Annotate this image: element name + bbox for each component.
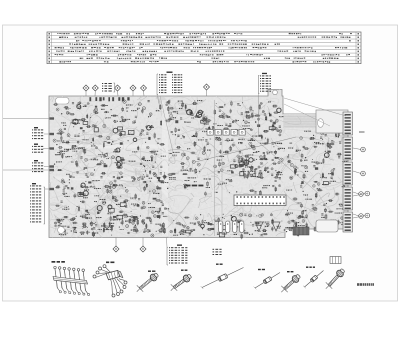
legend list (top small) bbox=[102, 83, 115, 92]
wire list C3x (left, long) bbox=[30, 183, 54, 224]
connector J1 (right edge) bbox=[343, 112, 353, 135]
diode pictorial D-c bbox=[303, 267, 323, 289]
alignment mark diamond D6 bbox=[204, 84, 210, 96]
component cluster top-middle bbox=[165, 100, 284, 144]
wire list TAB2 (left) bbox=[32, 144, 54, 153]
mounting hole right bbox=[318, 119, 324, 128]
routing lane vertical bbox=[162, 100, 168, 236]
pin header pictorial (comb) bbox=[52, 261, 90, 296]
leader line L-a bbox=[195, 137, 296, 162]
alignment mark diamond D5 bbox=[141, 85, 147, 96]
left edge wire stubs bbox=[50, 117, 55, 190]
PCB copper band bbox=[283, 114, 348, 128]
PCB outline bbox=[49, 90, 348, 238]
alignment mark diamond D8 bbox=[140, 238, 146, 253]
IF transformer row T1-T5 bbox=[207, 130, 245, 136]
wiring list (top center) bbox=[157, 72, 182, 109]
diode pictorial D-b bbox=[254, 269, 280, 290]
heatsink block bbox=[293, 227, 309, 235]
power transistor Q-b bbox=[272, 222, 280, 231]
top edge component row bbox=[89, 97, 129, 101]
alignment mark diamond D7 bbox=[113, 238, 119, 253]
cable plug P5a bbox=[353, 214, 363, 219]
leader line L-c bbox=[160, 96, 173, 152]
alignment mark diamond D2 bbox=[92, 85, 98, 96]
connector J3 (right edge) bbox=[343, 162, 353, 185]
mounting hole bottom-left bbox=[58, 227, 65, 234]
wire list TAB1 (left) bbox=[32, 127, 54, 139]
alignment mark diamond D3 bbox=[115, 85, 121, 96]
connector J2 (right edge) bbox=[343, 137, 353, 160]
power transistor Q-a bbox=[255, 222, 263, 231]
wire list TAB3 (left) bbox=[32, 160, 54, 172]
connector J4 (right edge) bbox=[343, 187, 353, 210]
cable plug P4b bbox=[353, 191, 370, 196]
component cluster left-bottom edge bbox=[56, 215, 165, 237]
cable plug P4a bbox=[353, 192, 363, 197]
wiring list (top right) bbox=[258, 73, 271, 136]
routing lane horizontal A bbox=[55, 145, 163, 149]
vertical bus line A bbox=[214, 100, 216, 236]
callout wire to page margin (lower) bbox=[3, 169, 52, 171]
mounting hole top-left bbox=[56, 98, 70, 105]
IC U1 (DIP) bbox=[234, 195, 286, 206]
label plate E3 bbox=[330, 257, 341, 264]
component cluster middle-right dense bbox=[235, 142, 286, 179]
cable plug P5b bbox=[353, 213, 370, 218]
legend list (bottom small) bbox=[213, 249, 222, 255]
alignment mark diamond D1 bbox=[83, 85, 89, 96]
component cluster right column bbox=[285, 130, 350, 231]
component cluster upper-left bbox=[53, 100, 166, 171]
mounting hole tab bbox=[273, 90, 278, 95]
callout wire to page margin (upper) bbox=[3, 118, 52, 120]
alignment mark diamond D4 bbox=[130, 85, 136, 96]
diode pictorial D-a bbox=[201, 264, 244, 289]
wiring list (bottom center) bbox=[167, 238, 188, 266]
component cluster bottom strip bbox=[170, 213, 307, 239]
PCB copper traces bbox=[25, 77, 377, 253]
cable lug P1 bbox=[359, 131, 365, 133]
drawing number RM4315/R bbox=[357, 283, 374, 286]
external wire W2 bbox=[284, 104, 330, 126]
bolt pictorial B1 bbox=[137, 271, 160, 292]
routing lane horizontal B bbox=[55, 177, 165, 181]
component cluster middle bbox=[167, 141, 282, 196]
component cluster lower-left bbox=[54, 170, 169, 237]
connector pictorial HA1 bbox=[93, 262, 127, 298]
module box bbox=[316, 220, 338, 232]
parts list table bbox=[47, 32, 361, 64]
bolt pictorial B4 bbox=[326, 267, 346, 288]
IC U1 label A-DM614 bbox=[186, 185, 203, 187]
cable plug P3 bbox=[353, 171, 365, 176]
leader line L-b bbox=[215, 105, 318, 193]
bolt pictorial B2 bbox=[171, 270, 193, 291]
dark accent components bbox=[71, 105, 334, 237]
vertical bus line B bbox=[221, 130, 223, 236]
bolt pictorial B3 bbox=[281, 271, 301, 292]
cable plug P2 bbox=[353, 147, 365, 152]
connector J5 (right edge) bbox=[343, 212, 353, 232]
external wire W1 bbox=[284, 98, 346, 116]
RF module box (top right) bbox=[316, 110, 348, 133]
electrolytic capacitor group C-row bbox=[219, 221, 244, 233]
